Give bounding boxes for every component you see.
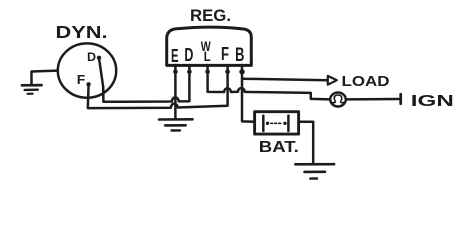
svg-text:BAT.: BAT. — [259, 139, 299, 156]
svg-text:LOAD: LOAD — [342, 73, 390, 90]
svg-text:F: F — [77, 72, 86, 87]
svg-text:D: D — [87, 50, 96, 64]
svg-text:D: D — [184, 44, 193, 65]
svg-text:E: E — [171, 45, 179, 66]
svg-text:DYN.: DYN. — [56, 22, 108, 42]
svg-text:L: L — [204, 49, 211, 64]
svg-text:IGN: IGN — [411, 93, 454, 110]
svg-text:B: B — [235, 44, 244, 66]
svg-text:REG.: REG. — [190, 7, 231, 25]
svg-text:F: F — [221, 43, 229, 64]
